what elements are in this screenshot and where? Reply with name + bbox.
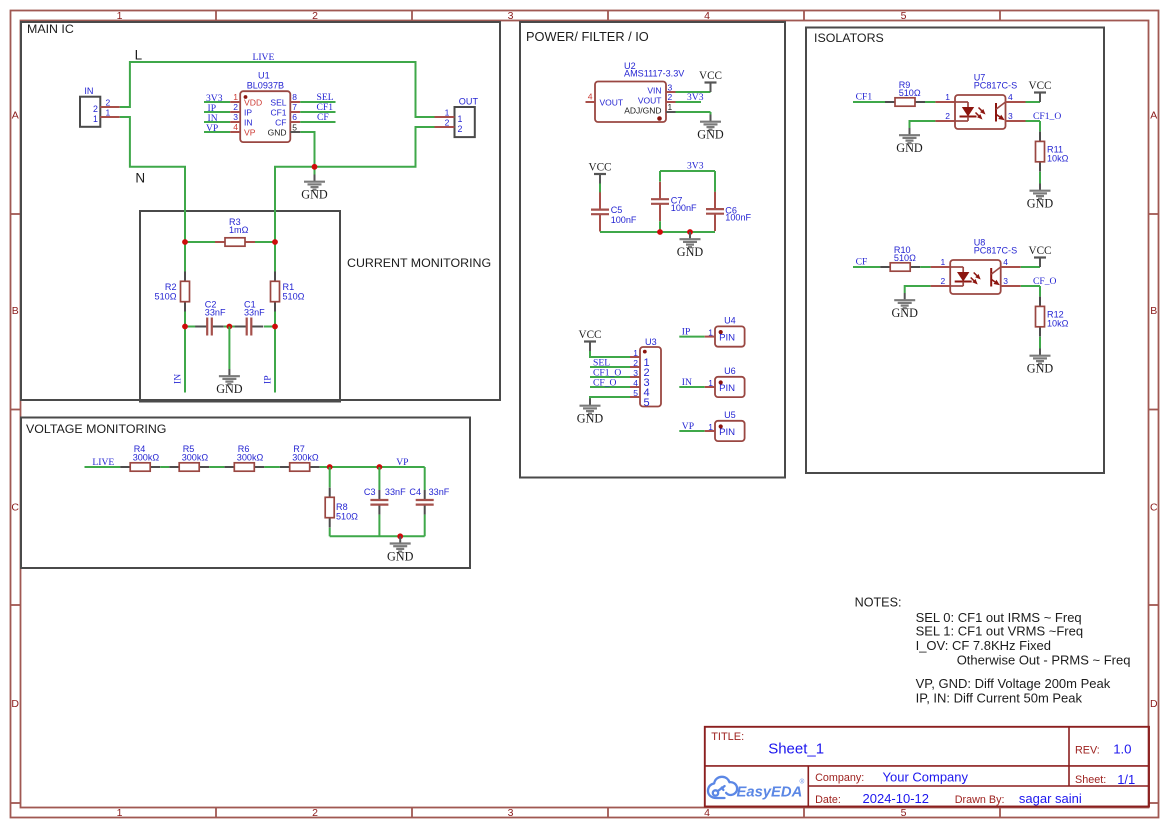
svg-text:U4: U4: [724, 316, 736, 326]
svg-text:GND: GND: [268, 127, 287, 137]
svg-text:VP: VP: [682, 421, 694, 432]
svg-text:2: 2: [312, 10, 318, 22]
svg-text:IN: IN: [682, 377, 692, 388]
svg-text:VCC: VCC: [699, 70, 722, 82]
svg-text:VP: VP: [396, 457, 408, 468]
svg-text:2: 2: [945, 111, 950, 121]
svg-text:3: 3: [508, 807, 514, 819]
svg-text:CF: CF: [856, 257, 868, 268]
svg-text:8: 8: [292, 92, 297, 102]
svg-text:VOUT: VOUT: [600, 98, 624, 108]
svg-text:2: 2: [106, 97, 111, 107]
svg-text:300kΩ: 300kΩ: [292, 453, 319, 463]
svg-text:100nF: 100nF: [671, 203, 697, 213]
svg-text:IN: IN: [173, 374, 184, 384]
svg-text:REV:: REV:: [1075, 745, 1100, 757]
svg-text:NOTES:: NOTES:: [855, 596, 902, 610]
svg-text:CF_O: CF_O: [593, 378, 617, 389]
svg-text:EasyEDA: EasyEDA: [737, 785, 803, 801]
svg-text:GND: GND: [301, 188, 328, 202]
svg-text:CF_O: CF_O: [1033, 276, 1057, 287]
svg-text:Company:: Company:: [815, 772, 864, 784]
svg-text:3: 3: [233, 112, 238, 122]
svg-text:U3: U3: [645, 337, 657, 347]
svg-text:R8: R8: [336, 502, 348, 512]
svg-text:IP: IP: [263, 375, 274, 384]
svg-text:Date:: Date:: [815, 794, 841, 806]
svg-text:PIN: PIN: [719, 383, 735, 394]
svg-text:VCC: VCC: [588, 162, 611, 174]
svg-text:IP: IP: [682, 327, 691, 338]
svg-text:N: N: [135, 171, 145, 186]
svg-text:GND: GND: [896, 141, 923, 155]
svg-text:300kΩ: 300kΩ: [237, 453, 264, 463]
svg-text:IP: IP: [244, 107, 252, 117]
svg-text:10kΩ: 10kΩ: [1047, 154, 1069, 164]
svg-text:D: D: [11, 698, 19, 710]
svg-text:100nF: 100nF: [725, 213, 751, 223]
svg-text:510Ω: 510Ω: [155, 291, 177, 301]
svg-text:300kΩ: 300kΩ: [182, 453, 209, 463]
svg-text:Sheet_1: Sheet_1: [768, 740, 824, 757]
svg-text:2: 2: [458, 124, 463, 134]
svg-text:100nF: 100nF: [611, 215, 637, 225]
svg-text:VOUT: VOUT: [638, 96, 662, 106]
svg-text:PIN: PIN: [719, 333, 735, 344]
svg-text:510Ω: 510Ω: [899, 88, 921, 98]
svg-text:1: 1: [940, 257, 945, 267]
svg-text:C5: C5: [611, 205, 623, 215]
svg-text:4: 4: [233, 122, 238, 132]
svg-text:1/1: 1/1: [1117, 772, 1135, 787]
svg-text:SEL 0: CF1 out IRMS ~ Freq: SEL 0: CF1 out IRMS ~ Freq: [916, 610, 1082, 625]
svg-text:®: ®: [800, 778, 805, 786]
svg-text:3: 3: [668, 83, 673, 93]
svg-text:4: 4: [1003, 257, 1008, 267]
svg-text:CF: CF: [317, 112, 329, 123]
svg-text:SEL: SEL: [270, 97, 286, 107]
svg-text:U6: U6: [724, 366, 736, 376]
svg-text:VIN: VIN: [647, 86, 661, 96]
svg-text:VCC: VCC: [1028, 245, 1051, 257]
svg-text:2: 2: [233, 102, 238, 112]
svg-text:Drawn By:: Drawn By:: [955, 794, 1005, 806]
svg-text:GND: GND: [1027, 362, 1054, 376]
svg-text:1: 1: [233, 92, 238, 102]
svg-text:B: B: [1150, 305, 1157, 317]
svg-text:C4: C4: [409, 487, 421, 497]
svg-text:5: 5: [901, 807, 907, 819]
svg-text:3: 3: [1008, 111, 1013, 121]
svg-text:A: A: [12, 110, 19, 122]
svg-text:33nF: 33nF: [385, 487, 406, 497]
svg-text:2: 2: [633, 358, 638, 368]
svg-text:LIVE: LIVE: [92, 457, 114, 468]
svg-text:sagar saini: sagar saini: [1019, 791, 1082, 806]
svg-text:4: 4: [704, 10, 710, 22]
svg-text:CF1_O: CF1_O: [1033, 111, 1061, 122]
svg-text:GND: GND: [677, 245, 704, 259]
svg-text:1.0: 1.0: [1113, 742, 1131, 757]
svg-text:OUT: OUT: [459, 96, 479, 106]
svg-text:AMS1117-3.3V: AMS1117-3.3V: [624, 69, 685, 79]
svg-text:5: 5: [901, 10, 907, 22]
svg-text:6: 6: [292, 112, 297, 122]
svg-text:1: 1: [708, 422, 713, 432]
svg-text:1: 1: [117, 10, 123, 22]
svg-text:C3: C3: [364, 487, 376, 497]
svg-text:MAIN IC: MAIN IC: [27, 22, 74, 36]
svg-text:5: 5: [292, 123, 297, 133]
svg-text:L: L: [135, 48, 143, 63]
svg-text:4: 4: [588, 92, 593, 102]
svg-text:4: 4: [633, 378, 638, 388]
svg-text:LIVE: LIVE: [253, 52, 275, 63]
svg-text:2: 2: [445, 117, 450, 127]
svg-text:510Ω: 510Ω: [894, 253, 916, 263]
svg-text:GND: GND: [577, 412, 604, 426]
svg-text:10kΩ: 10kΩ: [1047, 319, 1069, 329]
svg-text:4: 4: [1008, 92, 1013, 102]
svg-text:ADJ/GND: ADJ/GND: [624, 106, 661, 116]
svg-text:CF1: CF1: [270, 107, 286, 117]
svg-text:D: D: [1150, 698, 1158, 710]
svg-text:I_OV: CF 7.8KHz Fixed: I_OV: CF 7.8KHz Fixed: [916, 638, 1051, 653]
svg-text:3: 3: [1003, 276, 1008, 286]
svg-text:IP, IN: Diff Current 50m Peak: IP, IN: Diff Current 50m Peak: [916, 691, 1083, 706]
svg-text:VCC: VCC: [578, 329, 601, 341]
svg-text:BL0937B: BL0937B: [247, 81, 284, 91]
svg-text:1: 1: [945, 92, 950, 102]
svg-text:510Ω: 510Ω: [283, 291, 305, 301]
svg-text:GND: GND: [387, 549, 414, 563]
svg-text:5: 5: [633, 388, 638, 398]
svg-text:1: 1: [708, 378, 713, 388]
svg-text:1: 1: [93, 114, 98, 124]
svg-text:7: 7: [292, 102, 297, 112]
svg-text:VOLTAGE MONITORING: VOLTAGE MONITORING: [26, 422, 166, 436]
svg-text:1: 1: [708, 328, 713, 338]
svg-text:1: 1: [458, 114, 463, 124]
svg-text:IN: IN: [84, 86, 93, 96]
svg-text:VDD: VDD: [244, 97, 262, 107]
svg-text:1: 1: [117, 807, 123, 819]
svg-text:U1: U1: [258, 71, 270, 81]
svg-text:VCC: VCC: [1028, 80, 1051, 92]
svg-text:2: 2: [940, 276, 945, 286]
svg-text:SEL 1: CF1 out VRMS ~Freq: SEL 1: CF1 out VRMS ~Freq: [916, 624, 1084, 639]
svg-text:ISOLATORS: ISOLATORS: [814, 31, 884, 45]
svg-text:2: 2: [668, 92, 673, 102]
svg-text:3V3: 3V3: [687, 161, 704, 172]
svg-text:GND: GND: [1027, 197, 1054, 211]
svg-text:VP: VP: [244, 127, 256, 137]
svg-text:33nF: 33nF: [244, 307, 265, 317]
svg-text:2: 2: [312, 807, 318, 819]
svg-text:A: A: [1150, 110, 1157, 122]
svg-text:3: 3: [508, 10, 514, 22]
svg-text:3: 3: [633, 368, 638, 378]
svg-text:Your Company: Your Company: [883, 770, 969, 785]
svg-text:2024-10-12: 2024-10-12: [863, 791, 930, 806]
svg-text:PC817C-S: PC817C-S: [974, 246, 1017, 256]
svg-text:GND: GND: [697, 128, 724, 142]
svg-text:Otherwise Out - PRMS ~ Freq: Otherwise Out - PRMS ~ Freq: [957, 653, 1131, 668]
svg-text:C: C: [11, 502, 19, 514]
svg-text:CURRENT MONITORING: CURRENT MONITORING: [347, 256, 491, 270]
svg-text:CF: CF: [275, 117, 286, 127]
svg-text:TITLE:: TITLE:: [711, 731, 744, 743]
svg-text:U5: U5: [724, 410, 736, 420]
svg-text:VP: VP: [206, 123, 218, 134]
svg-text:2: 2: [93, 104, 98, 114]
svg-text:CF1: CF1: [856, 92, 873, 103]
svg-text:1: 1: [633, 348, 638, 358]
svg-text:Sheet:: Sheet:: [1075, 774, 1106, 786]
svg-text:VP, GND: Diff Voltage 200m Pea: VP, GND: Diff Voltage 200m Peak: [916, 676, 1111, 691]
svg-text:POWER/ FILTER / IO: POWER/ FILTER / IO: [526, 29, 649, 44]
svg-text:PC817C-S: PC817C-S: [974, 81, 1017, 91]
svg-text:C: C: [1150, 502, 1158, 514]
svg-text:300kΩ: 300kΩ: [133, 453, 160, 463]
svg-text:1: 1: [668, 102, 673, 112]
svg-text:3V3: 3V3: [687, 92, 704, 103]
svg-text:5: 5: [644, 397, 650, 409]
svg-text:33nF: 33nF: [429, 487, 450, 497]
svg-text:B: B: [12, 305, 19, 317]
svg-text:1: 1: [445, 107, 450, 117]
svg-text:4: 4: [704, 807, 710, 819]
svg-text:510Ω: 510Ω: [336, 512, 358, 522]
svg-text:1mΩ: 1mΩ: [229, 225, 249, 235]
svg-text:GND: GND: [216, 382, 243, 396]
svg-text:GND: GND: [891, 306, 918, 320]
svg-text:IN: IN: [244, 117, 253, 127]
svg-text:33nF: 33nF: [205, 307, 226, 317]
svg-text:PIN: PIN: [719, 427, 735, 438]
svg-text:1: 1: [106, 107, 111, 117]
